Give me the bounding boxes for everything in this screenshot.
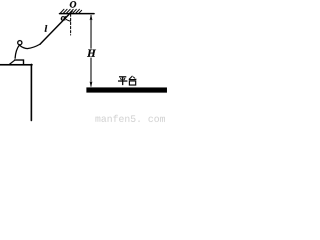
svg-text:manfen5. com: manfen5. com <box>95 114 166 125</box>
svg-text:l: l <box>44 25 47 35</box>
angle alpha arc <box>65 18 71 21</box>
cliff vertical edge <box>30 64 32 120</box>
svg-text:O: O <box>70 0 77 10</box>
arrowhead up at ceiling <box>90 14 93 20</box>
dashed vertical reference line below O <box>70 14 72 35</box>
ceiling line <box>60 13 94 15</box>
H dimension line lower segment <box>90 58 92 86</box>
arrowhead down at platform <box>90 82 93 88</box>
seat block / bent legs <box>15 60 24 65</box>
label 平台 (drawn strokes): 平 <box>118 76 136 85</box>
person: head <box>18 41 22 45</box>
platform bar <box>86 87 167 92</box>
person: arm to rope <box>20 44 40 49</box>
rope l from hand to point O (overshooting ceiling) <box>40 11 72 44</box>
person: body <box>15 45 19 58</box>
svg-text:H: H <box>86 48 96 60</box>
H dimension line upper segment <box>90 16 92 49</box>
ceiling hatching <box>60 9 81 13</box>
台 <box>129 76 137 85</box>
cliff top ground line <box>0 64 32 66</box>
